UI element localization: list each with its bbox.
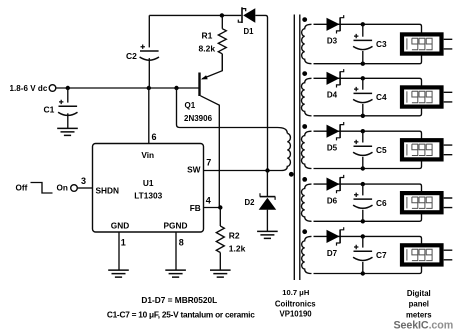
svg-text:D6: D6 bbox=[327, 197, 338, 206]
ground below C1 bbox=[57, 128, 78, 135]
wire secondary 3 top rail bbox=[314, 131, 422, 150]
svg-text:C1: C1 bbox=[44, 104, 55, 114]
capacitor C6 bbox=[353, 184, 387, 221]
svg-text:C1-C7 = 10 μF, 25-V tantalum o: C1-C7 = 10 μF, 25-V tantalum or ceramic bbox=[107, 310, 255, 320]
wire D1 anode to SW node bbox=[255, 15, 267, 170]
wire secondary 1 bottom rail bbox=[314, 44, 422, 64]
svg-text:D3: D3 bbox=[327, 37, 338, 46]
ground below pin 8 bbox=[165, 270, 186, 277]
svg-text:1.8-6 V dc: 1.8-6 V dc bbox=[10, 84, 48, 93]
svg-text:PGND: PGND bbox=[164, 220, 188, 230]
node junction C1 tap bbox=[66, 86, 70, 90]
resistor R1 8.2k bbox=[199, 15, 227, 70]
transistor Q1 2N3906 (PNP) bbox=[184, 54, 222, 208]
svg-text:C6: C6 bbox=[376, 198, 387, 208]
transformer T1 secondary winding 4 bbox=[302, 184, 312, 221]
svg-text:C2: C2 bbox=[126, 51, 137, 61]
node junction C7 bottom bbox=[361, 271, 365, 275]
digital panel meter 1 bbox=[402, 34, 452, 53]
node junction C3 top bbox=[361, 22, 365, 26]
wire secondary 5 bottom rail bbox=[314, 255, 422, 274]
svg-text:SeekIC.com: SeekIC.com bbox=[394, 319, 454, 331]
diode D1 MBR0520L (schottky, cathode left) bbox=[238, 7, 255, 36]
svg-text:10.7 μH: 10.7 μH bbox=[282, 288, 309, 297]
capacitor C5 bbox=[353, 131, 387, 168]
digital panel meter 2 bbox=[402, 87, 452, 106]
note D1-D7 part numbers bbox=[141, 295, 217, 305]
digital panel meter 4 bbox=[402, 193, 452, 212]
svg-text:3: 3 bbox=[81, 176, 86, 186]
svg-text:4: 4 bbox=[206, 195, 211, 205]
svg-text:C3: C3 bbox=[376, 39, 387, 49]
svg-text:2N3906: 2N3906 bbox=[184, 114, 213, 123]
svg-text:7: 7 bbox=[206, 157, 211, 167]
svg-text:Off: Off bbox=[16, 184, 28, 193]
node junction C6 bottom bbox=[361, 219, 365, 223]
node junction C6 top bbox=[361, 182, 365, 186]
wire secondary 3 bottom rail bbox=[314, 150, 422, 169]
svg-text:R2: R2 bbox=[229, 231, 240, 241]
digital panel meter 3 bbox=[402, 140, 452, 159]
svg-text:C7: C7 bbox=[376, 250, 387, 260]
node junction primary-top tap on VIN rail bbox=[174, 86, 178, 90]
svg-text:D4: D4 bbox=[327, 91, 338, 100]
op-amp U1 LT1303 IC body bbox=[93, 144, 204, 233]
wire FB pin 4 stub bbox=[204, 195, 221, 207]
capacitor C1 bbox=[44, 88, 78, 128]
transformer T1 primary winding bbox=[282, 133, 291, 170]
wire secondary 1 top rail bbox=[314, 24, 422, 44]
node junction C5 top bbox=[361, 129, 365, 133]
node junction SW / D1 / D2 bbox=[265, 168, 269, 172]
node junction C4 bottom bbox=[361, 114, 365, 118]
transformer T1 core bbox=[294, 15, 300, 281]
svg-text:C5: C5 bbox=[376, 145, 387, 155]
wire top bootstrap rail C2 to D1 bbox=[149, 14, 241, 16]
transformer T1 secondary 4 polarity dot bbox=[302, 177, 307, 182]
wire SW pin 7 to transformer primary bottom bbox=[204, 157, 282, 170]
svg-text:D2: D2 bbox=[245, 198, 256, 207]
svg-text:GND: GND bbox=[111, 220, 129, 230]
node junction FB / R2 / Q1 collector bbox=[218, 205, 222, 209]
svg-text:U1: U1 bbox=[143, 178, 154, 188]
transformer label 10.7 uH Coiltronics VP10190 bbox=[275, 288, 316, 318]
digital panel meter 5 bbox=[402, 245, 452, 264]
svg-text:D5: D5 bbox=[327, 144, 338, 153]
node junction R1 top bbox=[220, 13, 224, 17]
transformer T1 secondary winding 5 bbox=[302, 236, 312, 273]
svg-text:Vin: Vin bbox=[141, 150, 154, 160]
transformer T1 secondary 2 polarity dot bbox=[302, 71, 307, 76]
diode D6 MBR0520L (schottky) bbox=[327, 175, 344, 206]
label digital panel meters bbox=[406, 289, 432, 320]
diode D7 MBR0520L (schottky) bbox=[327, 227, 344, 258]
svg-text:LT1303: LT1303 bbox=[134, 190, 162, 200]
transformer T1 secondary 3 polarity dot bbox=[302, 124, 307, 129]
svg-text:1.2k: 1.2k bbox=[229, 244, 246, 254]
node junction C3 bottom bbox=[361, 62, 365, 66]
svg-text:VP10190: VP10190 bbox=[280, 310, 313, 319]
wire Vin pin 6 drop to IC bbox=[149, 88, 157, 144]
svg-text:SW: SW bbox=[187, 164, 201, 174]
ground below D2 bbox=[257, 231, 278, 238]
svg-text:meters: meters bbox=[406, 311, 432, 320]
node junction C2 / Vin pin tap bbox=[147, 86, 151, 90]
svg-text:D1-D7 = MBR0520L: D1-D7 = MBR0520L bbox=[141, 295, 217, 305]
Off/On step waveform annotation bbox=[16, 183, 68, 194]
wire secondary 2 top rail bbox=[314, 78, 422, 97]
node SHDN input terminal pin 3 bbox=[71, 176, 93, 191]
node junction C4 top bbox=[361, 76, 365, 80]
wire secondary 4 bottom rail bbox=[314, 203, 422, 222]
transformer T1 secondary winding 1 bbox=[302, 24, 312, 63]
svg-text:Coiltronics: Coiltronics bbox=[275, 299, 316, 308]
wire secondary 5 top rail bbox=[314, 236, 422, 255]
wire secondary 2 bottom rail bbox=[314, 97, 422, 116]
ground below R2 bbox=[210, 270, 231, 277]
svg-text:FB: FB bbox=[190, 203, 201, 213]
svg-text:panel: panel bbox=[409, 300, 429, 309]
svg-text:SHDN: SHDN bbox=[96, 186, 120, 196]
capacitor C2 bbox=[126, 15, 159, 88]
svg-text:R1: R1 bbox=[202, 30, 213, 40]
wire GND pin 1 drop bbox=[119, 232, 126, 270]
ground below pin 1 bbox=[108, 270, 129, 277]
svg-text:1: 1 bbox=[121, 238, 126, 248]
svg-text:Digital: Digital bbox=[407, 289, 431, 298]
node VIN input terminal 1.8-6 V dc bbox=[10, 84, 56, 93]
svg-text:D7: D7 bbox=[327, 249, 338, 258]
wire secondary 4 top rail bbox=[314, 184, 422, 203]
diode D2 MBR0520L (schottky, cathode up) bbox=[245, 171, 277, 232]
svg-text:8.2k: 8.2k bbox=[199, 44, 216, 54]
svg-text:Q1: Q1 bbox=[185, 101, 196, 110]
diode D3 MBR0520L (schottky) bbox=[327, 15, 344, 46]
watermark SeekIC.com bbox=[394, 319, 454, 331]
transformer T1 secondary winding 3 bbox=[301, 131, 311, 168]
diode D4 MBR0520L (schottky) bbox=[327, 69, 344, 100]
node junction C5 bottom bbox=[361, 166, 365, 170]
note C1-C7 values bbox=[107, 310, 255, 320]
wire VIN rail from input terminal to Q1 base bbox=[56, 87, 199, 89]
diode D5 MBR0520L (schottky) bbox=[327, 122, 344, 153]
capacitor C7 bbox=[353, 236, 387, 273]
capacitor C3 bbox=[353, 24, 387, 63]
transformer T1 secondary 5 polarity dot bbox=[302, 229, 307, 234]
svg-text:C4: C4 bbox=[376, 92, 387, 102]
transformer T1 secondary 1 polarity dot bbox=[302, 17, 307, 22]
capacitor C4 bbox=[353, 78, 387, 116]
svg-text:6: 6 bbox=[152, 132, 157, 142]
node junction C7 top bbox=[361, 234, 365, 238]
wire PGND pin 8 drop bbox=[176, 232, 184, 270]
svg-text:On: On bbox=[57, 184, 68, 193]
wire VIN rail to transformer primary top bbox=[177, 88, 288, 133]
svg-text:8: 8 bbox=[179, 237, 184, 247]
transformer T1 secondary winding 2 bbox=[301, 78, 311, 116]
transformer T1 primary polarity dot bbox=[289, 172, 294, 177]
resistor R2 1.2k bbox=[216, 208, 245, 271]
svg-text:D1: D1 bbox=[244, 27, 255, 36]
